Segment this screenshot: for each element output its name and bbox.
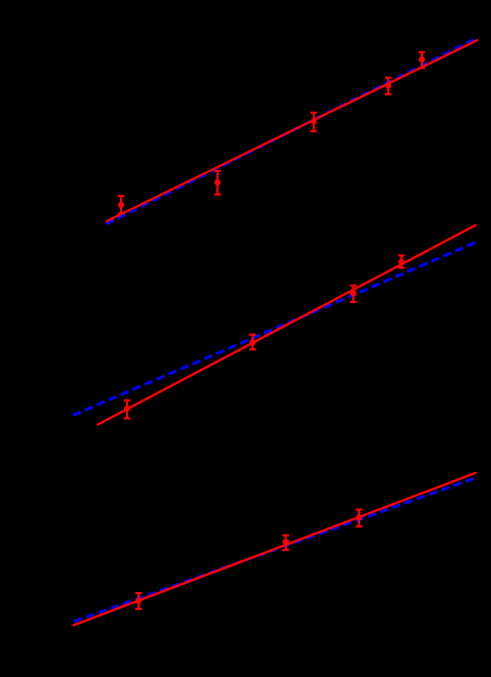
- panel 2 blue dashed model line: [73, 242, 478, 416]
- panel 3 data point R2 with error bar: [282, 535, 289, 550]
- panel 1 red fit line: [106, 40, 478, 222]
- panel 1 data point P4 with error bar: [385, 78, 392, 95]
- panel 1 data point P5 with error bar: [419, 52, 426, 68]
- panel 1 data point P3 with error bar: [310, 113, 317, 132]
- panel 1 data point P1 with error bar: [118, 196, 125, 214]
- panel 2 data point Q1 with error bar: [124, 400, 131, 418]
- panel 2 data point Q4 with error bar: [398, 256, 405, 268]
- panel 3 blue dashed model line: [74, 478, 477, 622]
- panel 1 data point P2 with error bar: [214, 171, 221, 195]
- panel 3 red fit line: [73, 473, 477, 626]
- panel 2 red fit line: [97, 225, 477, 425]
- panel 2 data point Q2 with error bar: [249, 335, 256, 350]
- panel 2 data point Q3 with error bar: [350, 286, 357, 302]
- panel 1 blue dashed model line: [106, 38, 478, 225]
- panel 3 data point R3 with error bar: [356, 510, 363, 527]
- panel 3 data point R1 with error bar: [135, 593, 142, 609]
